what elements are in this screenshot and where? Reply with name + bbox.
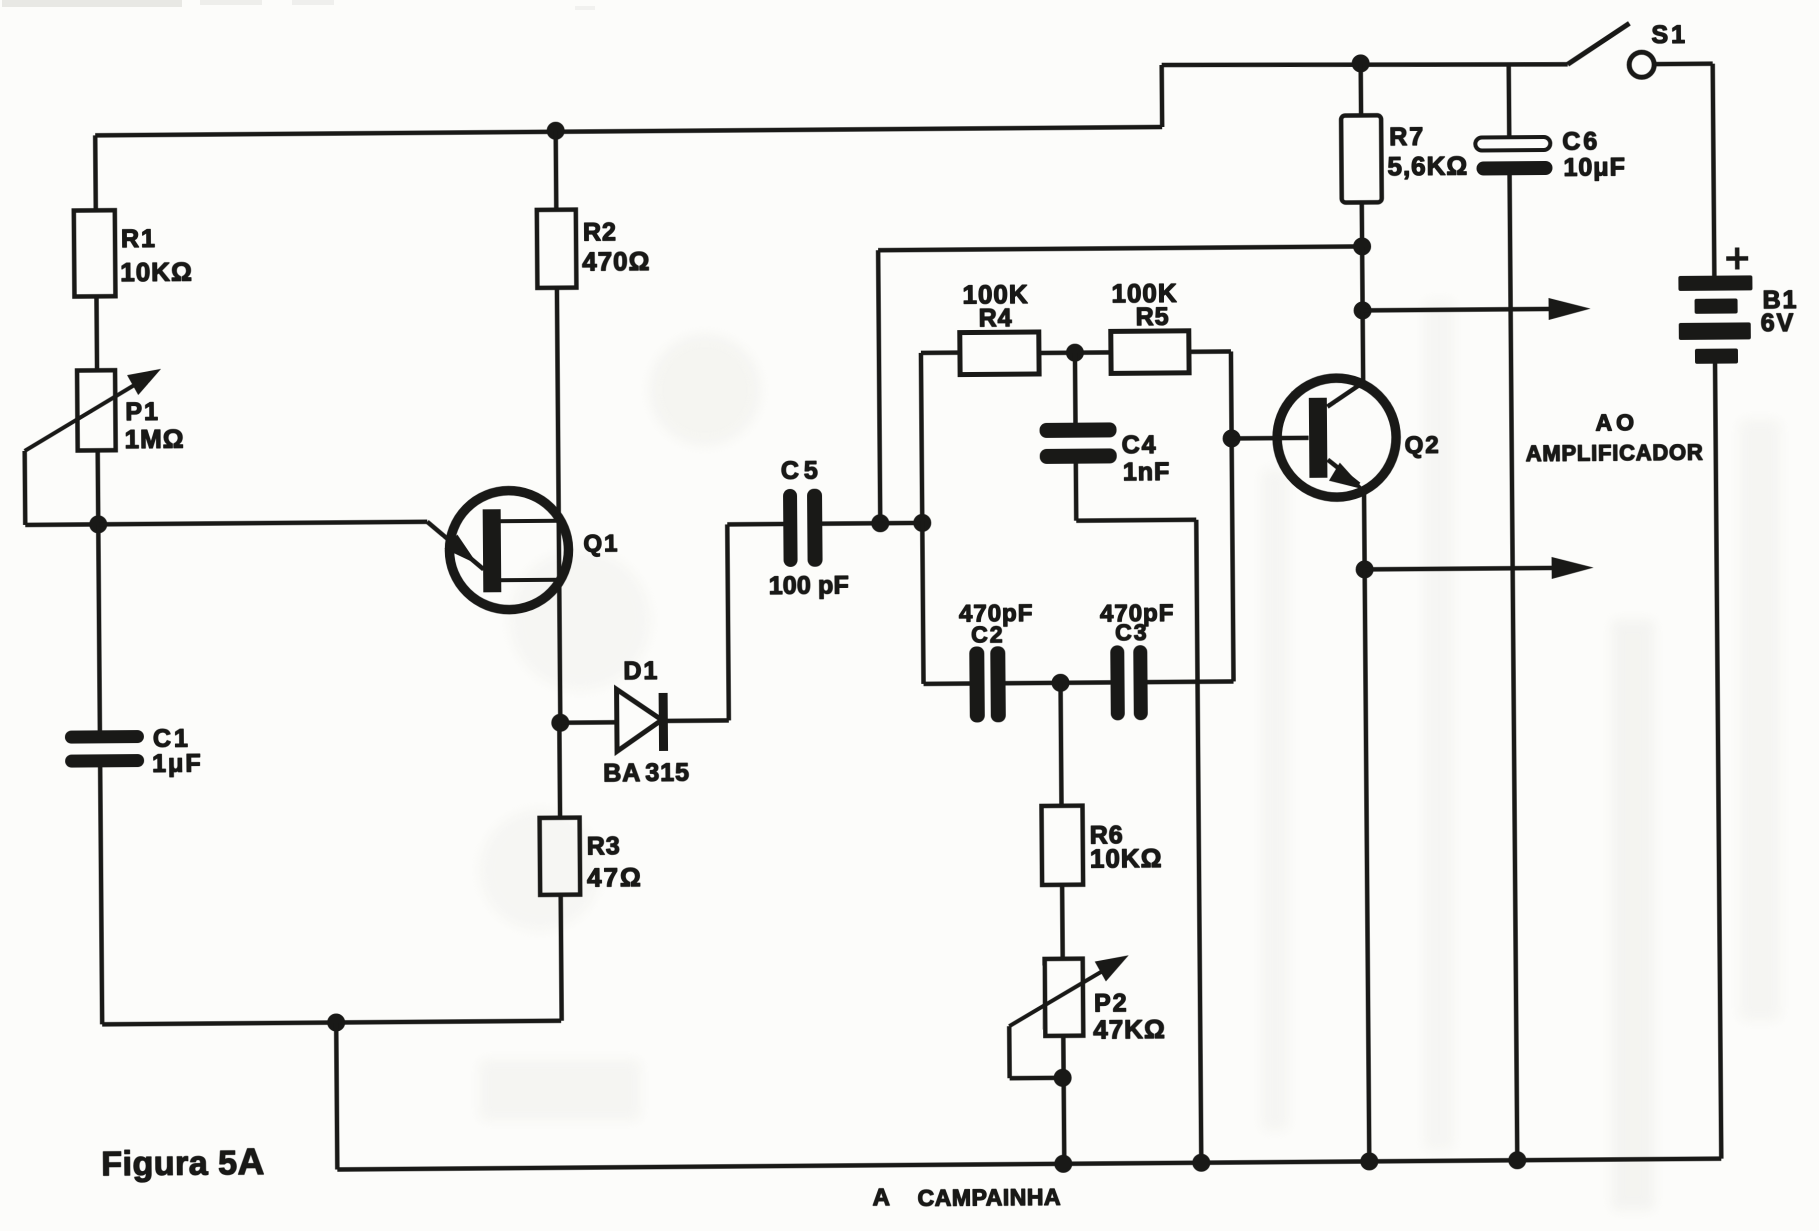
svg-text:6V: 6V bbox=[1761, 309, 1796, 337]
wire P2 bottom lead bbox=[1063, 1036, 1064, 1164]
wire P2 wiper left leg bbox=[1007, 1026, 1012, 1078]
capacitor C1 bbox=[65, 730, 144, 768]
svg-text:470Ω: 470Ω bbox=[582, 246, 650, 277]
node C4-drop on bottom rail bbox=[1192, 1154, 1210, 1172]
wire C4 bottom lead bbox=[1074, 464, 1079, 521]
wire down into Q2 collector bbox=[1360, 310, 1365, 382]
svg-text:Figura 5A: Figura 5A bbox=[101, 1141, 265, 1183]
potentiometer P2 bbox=[1045, 959, 1084, 1036]
svg-text:R1: R1 bbox=[121, 225, 157, 253]
svg-text:Q1: Q1 bbox=[583, 530, 619, 557]
svg-text:AO: AO bbox=[1595, 409, 1638, 435]
node bottom-left junction bbox=[327, 1013, 345, 1031]
svg-text:R2: R2 bbox=[583, 218, 617, 246]
transistor Q2 bbox=[1277, 378, 1397, 498]
wire R1 top lead bbox=[93, 135, 98, 210]
wire riser from D1 to C5 bbox=[727, 524, 729, 720]
wire R6 top lead bbox=[1058, 683, 1063, 806]
svg-text:10KΩ: 10KΩ bbox=[1090, 843, 1163, 874]
resistor R7 bbox=[1341, 115, 1382, 202]
capacitor C3 bbox=[1110, 645, 1148, 720]
wire twin-T left riser down to C2 bbox=[922, 523, 923, 684]
wire R4 to R5 bbox=[1039, 350, 1111, 355]
wire feedback horizontal to R7 junction bbox=[878, 246, 1362, 250]
svg-text:C4: C4 bbox=[1122, 431, 1158, 459]
node R7 bottom junction bbox=[1353, 237, 1371, 255]
capacitor C4 bbox=[1039, 422, 1116, 464]
wire Q2 emitter to bottom rail bbox=[1365, 569, 1370, 1161]
wire P1 wiper left leg bbox=[22, 451, 27, 525]
wire battery bottom to rail corner bbox=[1715, 364, 1721, 1159]
node P2 column on bottom rail bbox=[1054, 1155, 1072, 1173]
wire junction down to C1 bbox=[98, 524, 100, 730]
wire R3 bottom lead bbox=[558, 895, 563, 1021]
wire upper output arrow bbox=[1363, 309, 1554, 311]
battery B1 plus sign bbox=[1726, 247, 1748, 269]
wire C4 top lead bbox=[1073, 353, 1078, 423]
wire C6 top lead bbox=[1506, 65, 1511, 137]
svg-text:AMPLIFICADOR: AMPLIFICADOR bbox=[1526, 440, 1703, 466]
resistor R1 bbox=[74, 210, 116, 296]
wire bottom rail bbox=[337, 1159, 1721, 1170]
wire R2 top lead bbox=[553, 131, 558, 210]
P2 wiper arrow bbox=[1009, 964, 1114, 1026]
svg-text:100 pF: 100 pF bbox=[769, 571, 849, 600]
svg-text:5,6KΩ: 5,6KΩ bbox=[1387, 151, 1468, 182]
wire into C5 bbox=[727, 522, 783, 527]
wire R7 bottom lead bbox=[1360, 202, 1365, 246]
wire R6 to P2 bbox=[1060, 885, 1065, 959]
svg-text:R4: R4 bbox=[979, 304, 1013, 332]
node Q2 base junction bbox=[1223, 429, 1241, 447]
wire C2 to C3 bbox=[1006, 680, 1111, 685]
svg-text:C3: C3 bbox=[1115, 619, 1149, 645]
svg-text:1nF: 1nF bbox=[1123, 458, 1171, 486]
wire C3 to right riser bbox=[1148, 679, 1234, 684]
node lower arrow junction bbox=[1356, 560, 1374, 578]
node top of R2 column bbox=[547, 122, 565, 140]
node Q2 emitter on bottom rail bbox=[1360, 1152, 1378, 1170]
diode D1 bbox=[617, 689, 668, 751]
svg-text:C2: C2 bbox=[971, 621, 1005, 647]
battery B1 bbox=[1678, 275, 1753, 364]
svg-text:D1: D1 bbox=[623, 657, 659, 685]
wire top rail bbox=[1162, 62, 1568, 68]
capacitor C2 bbox=[969, 646, 1006, 722]
node twin-T input junction bbox=[913, 514, 931, 532]
resistor R5 bbox=[1111, 331, 1189, 374]
wire C1 down bbox=[100, 767, 102, 1024]
svg-text:A: A bbox=[872, 1184, 892, 1211]
svg-text:C6: C6 bbox=[1562, 128, 1600, 156]
svg-text:R5: R5 bbox=[1136, 303, 1170, 331]
node C6 on bottom rail bbox=[1508, 1151, 1526, 1169]
svg-text:47KΩ: 47KΩ bbox=[1093, 1014, 1166, 1045]
wire twin-T left riser up to R4 bbox=[921, 353, 922, 523]
svg-text:R3: R3 bbox=[587, 832, 621, 860]
wire R7 top lead bbox=[1358, 63, 1363, 115]
wire P1 wiper to junction bbox=[25, 522, 98, 527]
switch S1 bbox=[1567, 23, 1654, 78]
wire C6 bottom lead to rail bbox=[1510, 175, 1518, 1160]
wire D1 anode lead bbox=[560, 720, 616, 725]
wire feedback riser up bbox=[878, 250, 880, 523]
wire bottom-left horizontal bbox=[102, 1021, 561, 1025]
wire Q2 base lead bbox=[1232, 436, 1309, 441]
wire twin-T bottom row left bbox=[924, 681, 970, 686]
svg-text:CAMPAINHA: CAMPAINHA bbox=[917, 1184, 1060, 1211]
svg-text:R7: R7 bbox=[1389, 123, 1425, 151]
wire C5 to twin-T input bbox=[822, 521, 922, 526]
svg-text:1μF: 1μF bbox=[152, 750, 203, 778]
svg-text:P2: P2 bbox=[1094, 989, 1129, 1017]
capacitor C5 bbox=[783, 489, 823, 567]
svg-text:C1: C1 bbox=[153, 725, 191, 753]
svg-text:1MΩ: 1MΩ bbox=[124, 424, 184, 454]
svg-text:S1: S1 bbox=[1651, 21, 1688, 49]
node P1 wiper junction bbox=[89, 515, 107, 533]
node D1 anode junction bbox=[551, 714, 569, 732]
resistor R2 bbox=[537, 210, 577, 288]
node P2 wiper junction bbox=[1054, 1069, 1072, 1087]
wire Q2 emitter down bbox=[1362, 489, 1367, 569]
wire Q1 base from P1 junction bbox=[98, 522, 427, 525]
wire C4 bottom horizontal bbox=[1076, 517, 1196, 522]
wire top-left horizontal rail bbox=[95, 127, 1162, 135]
wire right corner down to battery bbox=[1713, 64, 1715, 276]
wire R1 to P1 bbox=[94, 296, 99, 370]
node C5 output junction bbox=[871, 514, 889, 532]
wire P2 wiper to bottom lead bbox=[1010, 1076, 1064, 1081]
svg-text:C5: C5 bbox=[781, 457, 823, 485]
wire step up to top rail bbox=[1159, 65, 1164, 127]
wire R5 to right riser bbox=[1189, 349, 1231, 354]
potentiometer P1 bbox=[77, 370, 116, 450]
wire P1 bottom lead bbox=[95, 450, 100, 524]
wire to R4 bbox=[921, 350, 960, 355]
P1 wiper arrow bbox=[24, 378, 147, 451]
wire down to arrow junction bbox=[1360, 246, 1365, 310]
node top rail at R7 bbox=[1352, 54, 1370, 72]
node twin-T bottom center junction bbox=[1051, 674, 1069, 692]
svg-text:BA315: BA315 bbox=[603, 759, 690, 788]
transistor Q1 bbox=[427, 490, 569, 610]
wire lower output arrow bbox=[1365, 568, 1557, 570]
resistor R3 bbox=[540, 818, 581, 895]
node upper arrow junction bbox=[1354, 301, 1372, 319]
svg-text:10μF: 10μF bbox=[1563, 153, 1626, 181]
wire S1 to corner bbox=[1655, 61, 1713, 66]
capacitor C6 bbox=[1475, 137, 1552, 176]
resistor R6 bbox=[1042, 806, 1084, 885]
wire twin-T right riser bbox=[1231, 351, 1234, 681]
wire D1 cathode lead bbox=[668, 718, 729, 723]
resistor R4 bbox=[960, 332, 1039, 375]
node twin-T top center junction bbox=[1066, 344, 1084, 362]
wire junction down to bottom rail bbox=[336, 1023, 337, 1170]
svg-text:P1: P1 bbox=[125, 398, 160, 426]
wire C4 drop riser to bottom rail bbox=[1196, 520, 1201, 1163]
wire R3 top lead bbox=[557, 723, 562, 818]
svg-text:47Ω: 47Ω bbox=[587, 862, 643, 892]
svg-text:Q2: Q2 bbox=[1405, 432, 1441, 459]
wire R2 down through Q1 to D1 junction bbox=[557, 288, 560, 723]
svg-text:10KΩ: 10KΩ bbox=[120, 257, 193, 288]
